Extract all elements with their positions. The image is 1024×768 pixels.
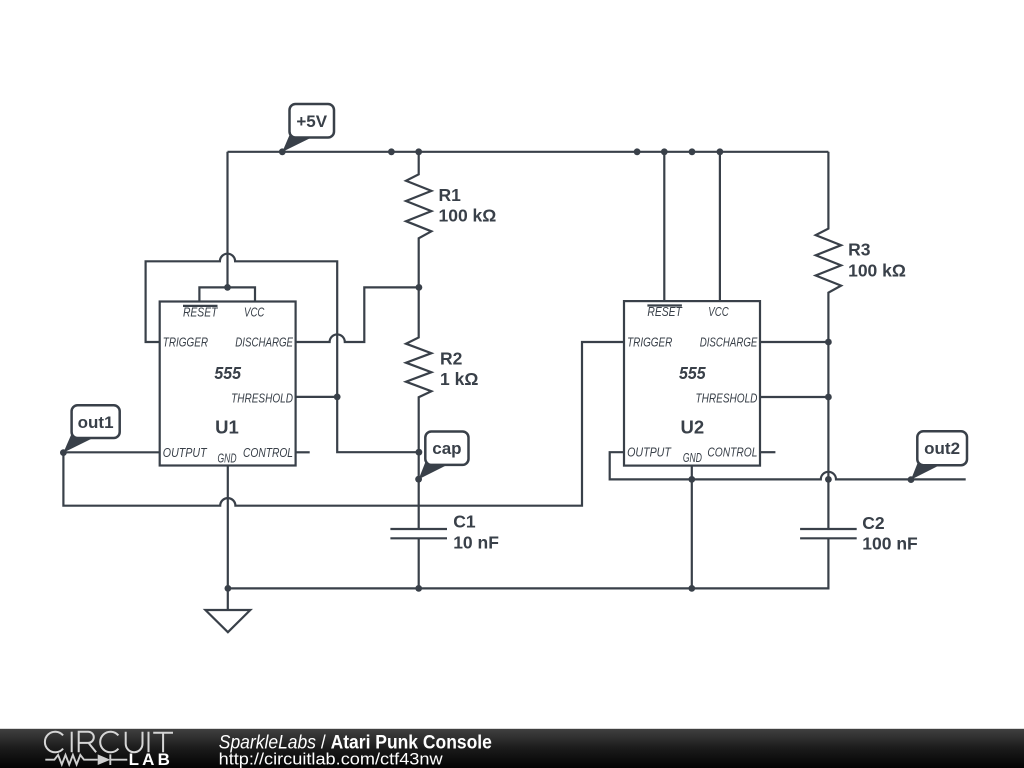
wire: U2 gnd down to bottom rail bbox=[691, 466, 693, 589]
node flag out2 box bbox=[917, 431, 967, 465]
svg-text:DISCHARGE: DISCHARGE bbox=[235, 335, 293, 349]
svg-text:+5V: +5V bbox=[296, 112, 327, 131]
node flag out2 junction dot bbox=[908, 476, 915, 483]
svg-text:R2: R2 bbox=[440, 349, 463, 369]
node flag cap box bbox=[425, 432, 468, 465]
node flag out2 pointer bbox=[911, 460, 940, 479]
junction dot: U2 threshold joins R3 wire bbox=[825, 394, 832, 401]
wire: +5V top rail bbox=[228, 151, 829, 153]
wire: U1 trigger loop to threshold and cap node bbox=[146, 254, 419, 453]
ground symbol bbox=[205, 610, 250, 632]
resistor R3 from rail corner down to C2 top plate bbox=[816, 152, 841, 529]
node flag cap junction dot bbox=[415, 476, 422, 483]
op-amp/timer U1 body bbox=[160, 302, 296, 466]
svg-text:TRIGGER: TRIGGER bbox=[627, 335, 672, 349]
footer url line bbox=[219, 749, 443, 768]
footer bar bbox=[0, 729, 1024, 768]
svg-text:THRESHOLD: THRESHOLD bbox=[231, 391, 293, 405]
svg-text:LAB: LAB bbox=[129, 750, 174, 768]
svg-text:TRIGGER: TRIGGER bbox=[163, 335, 208, 349]
svg-text:CONTROL: CONTROL bbox=[707, 446, 757, 460]
svg-text:RESET: RESET bbox=[647, 305, 683, 319]
wire: U2 control stub bbox=[760, 451, 775, 453]
wire: C1 bottom lead bbox=[418, 538, 420, 588]
junction dot: discharge joins R1-R2 wire bbox=[416, 284, 423, 291]
svg-text:cap: cap bbox=[432, 439, 461, 458]
svg-text:THRESHOLD: THRESHOLD bbox=[696, 391, 758, 405]
svg-text:U1: U1 bbox=[215, 417, 239, 438]
svg-text:RESET: RESET bbox=[183, 306, 219, 320]
svg-text:1 kΩ: 1 kΩ bbox=[440, 369, 478, 389]
svg-text:C1: C1 bbox=[453, 512, 476, 532]
svg-text:http://circuitlab.com/ctf43nw: http://circuitlab.com/ctf43nw bbox=[219, 749, 443, 768]
wire: U2 threshold to R3 wire bbox=[760, 396, 828, 398]
wire: bottom ground rail from U1 gnd to C2 bottom plate bbox=[228, 538, 829, 588]
capacitor C2 plates bbox=[800, 529, 857, 538]
CircuitLab logo CIRCUIT thin letters bbox=[45, 732, 173, 753]
svg-text:100 kΩ: 100 kΩ bbox=[439, 206, 497, 226]
junction dot: U2 output crosses gnd wire bbox=[688, 476, 695, 483]
wire: U2 reset feed from rail bbox=[663, 152, 665, 301]
svg-text:10 nF: 10 nF bbox=[453, 533, 499, 553]
junction dot: cap node corner bbox=[416, 449, 423, 456]
wire: U2 discharge to R3 wire bbox=[760, 341, 828, 343]
svg-text:U2: U2 bbox=[680, 416, 704, 437]
power flag +5V pointer bbox=[282, 133, 312, 152]
svg-text:GND: GND bbox=[218, 451, 237, 465]
svg-text:R1: R1 bbox=[439, 185, 462, 205]
junction dot: out1 node bbox=[60, 449, 67, 456]
junction dot: U1 bracket center bbox=[224, 284, 231, 291]
node flag out1 pointer bbox=[63, 433, 93, 452]
footer title line bbox=[219, 731, 492, 753]
wire: rail feed down to U1 reset/vcc bracket bbox=[226, 152, 228, 288]
svg-text:DISCHARGE: DISCHARGE bbox=[700, 335, 758, 349]
wire: U1 output to out1 corner then to U2 trigger bbox=[63, 342, 624, 506]
junction dot: threshold joins loop bbox=[334, 394, 341, 401]
svg-text:100 kΩ: 100 kΩ bbox=[848, 260, 906, 280]
wire: U1 reset+vcc bracket bbox=[199, 287, 255, 301]
svg-text:OUTPUT: OUTPUT bbox=[163, 446, 208, 460]
capacitor C1 plates bbox=[390, 529, 447, 538]
svg-text:out1: out1 bbox=[78, 413, 114, 432]
svg-text:GND: GND bbox=[683, 451, 702, 465]
wire: U1 threshold stub bbox=[296, 396, 338, 398]
junction dots on +5V rail bbox=[279, 148, 286, 155]
wire: U1 control stub bbox=[296, 451, 310, 453]
wire: U1 gnd down to ground symbol bbox=[227, 466, 229, 611]
svg-text:out2: out2 bbox=[924, 439, 960, 458]
wire: U2 output to out2 node bbox=[610, 452, 966, 479]
junction dot: output wire at C2 wire hop bbox=[825, 476, 832, 483]
svg-text:CONTROL: CONTROL bbox=[243, 446, 293, 460]
wire: U2 vcc feed from rail bbox=[719, 152, 721, 301]
svg-text:100 nF: 100 nF bbox=[862, 534, 918, 554]
svg-text:OUTPUT: OUTPUT bbox=[627, 446, 672, 460]
wire: U1 discharge to R1/R2 midpoint bbox=[296, 287, 419, 342]
resistor R1 and resistor R2 vertical chain down to C1 top plate bbox=[406, 152, 431, 529]
svg-text:555: 555 bbox=[679, 363, 706, 383]
power flag +5V box bbox=[290, 104, 335, 138]
CircuitLab logo resistor-diode glyph bbox=[45, 755, 97, 765]
svg-text:VCC: VCC bbox=[708, 305, 729, 319]
svg-text:C2: C2 bbox=[862, 513, 885, 533]
junction dot: U1 gnd meets bottom rail bbox=[225, 585, 232, 592]
node flag cap pointer bbox=[419, 460, 448, 479]
node flag out1 box bbox=[72, 405, 120, 438]
svg-text:555: 555 bbox=[214, 363, 241, 383]
svg-text:R3: R3 bbox=[848, 239, 871, 259]
junction dot: U2 gnd meets bottom rail bbox=[688, 585, 695, 592]
op-amp/timer U2 body bbox=[624, 301, 760, 466]
junction dot: C1 meets bottom rail bbox=[415, 585, 422, 592]
junction dot: U2 discharge joins R3 wire bbox=[825, 339, 832, 346]
svg-text:VCC: VCC bbox=[244, 306, 265, 320]
